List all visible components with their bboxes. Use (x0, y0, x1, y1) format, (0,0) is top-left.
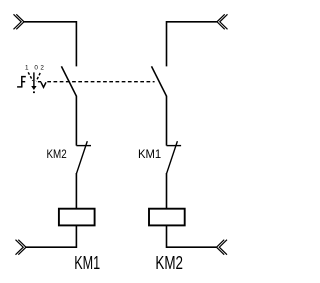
contact S:2 (NO) right blade (152, 66, 167, 96)
coil KM1 (59, 209, 95, 226)
svg-text:KM2: KM2 (155, 252, 183, 273)
wire right mid (166, 96, 168, 146)
contact S:1 (NO) left blade (61, 66, 76, 96)
svg-text:KM2: KM2 (47, 147, 67, 161)
wire below coil KM2 to bottom rail (167, 225, 217, 247)
NC interlock contact KM1 (seat and blade) (167, 141, 182, 173)
off-page connector bottom-left (16, 240, 27, 255)
wire top-left rail and left drop (24, 22, 77, 67)
off-page connector top-left (14, 14, 25, 29)
mechanical linkage (dashed) (38, 81, 41, 83)
off-page connector bottom-right (217, 240, 228, 255)
wire right lower (166, 173, 168, 208)
svg-text:1: 1 (25, 64, 29, 71)
wire top-right rail and right drop (167, 22, 217, 67)
svg-text:0: 0 (34, 64, 38, 71)
selector switch actuator S (lever, spring return) (17, 72, 46, 93)
coil KM2 (149, 209, 185, 226)
position labels 1 0 2 (25, 64, 44, 71)
wire left lower (75, 173, 77, 208)
off-page connector top-right (217, 14, 228, 29)
svg-text:KM1: KM1 (138, 147, 161, 161)
svg-text:KM1: KM1 (74, 252, 100, 273)
wire below coil KM1 to bottom rail (26, 225, 77, 247)
NC interlock contact KM2 (seat and blade) (76, 141, 91, 173)
wire left mid (75, 96, 77, 146)
svg-text:2: 2 (40, 64, 44, 71)
